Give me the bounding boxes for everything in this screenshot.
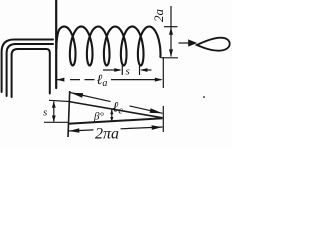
right tick [162, 106, 164, 132]
l_a dimension line dashes [57, 79, 95, 81]
svg-text:2a: 2a [151, 9, 166, 23]
l_c dimension line [70, 93, 163, 114]
triangle hypotenuse [69, 102, 163, 118]
ground plate [55, 0, 57, 88]
l_a right extension line [162, 57, 164, 88]
l_a dimension line right part [111, 79, 161, 81]
2pia arrowhead right [152, 125, 163, 130]
s bottom tick [44, 121, 69, 123]
2pia dimension line [69, 127, 163, 131]
helix coil [56, 27, 160, 66]
s arrow shaft [53, 102, 55, 122]
svg-text:2πa: 2πa [95, 126, 119, 143]
feed line middle [7, 44, 53, 96]
s coil arrowhead left [140, 68, 148, 72]
svg-text:β°: β° [93, 111, 104, 123]
triangle left edge [68, 91, 70, 137]
2a dimension line [170, 6, 172, 57]
beta arrowhead up [110, 109, 113, 114]
beta arrowhead down [110, 117, 113, 122]
s top tick [49, 100, 71, 101]
2a arrowhead down [169, 49, 173, 57]
l_a arrowhead right [155, 78, 163, 82]
2a arrowhead up [169, 27, 173, 35]
svg-text:s: s [126, 66, 130, 78]
2a bottom tick [161, 57, 178, 59]
svg-text:ℓc: ℓc [113, 101, 124, 117]
feed line inner [12, 49, 50, 97]
s coil left tick [121, 64, 123, 76]
scan speck [203, 96, 205, 98]
beta angle arrow shaft [111, 110, 113, 122]
triangle base [68, 118, 163, 124]
2pia arrowhead left [69, 128, 80, 133]
radiation arrow shaft [179, 42, 191, 43]
s coil right arrow shaft [142, 69, 152, 71]
radiation pattern teardrop [197, 38, 230, 51]
s tri arrowhead up [52, 101, 56, 108]
l_c arrowhead left [71, 93, 84, 98]
svg-text:ℓa: ℓa [97, 73, 108, 89]
s coil left arrow shaft [103, 69, 120, 71]
radiation arrowhead [188, 39, 197, 46]
feed line outer [2, 40, 53, 93]
s coil right tick [139, 64, 141, 76]
l_c arrowhead right [150, 108, 163, 113]
s coil arrowhead right [114, 68, 122, 72]
2a top tick [164, 26, 178, 28]
svg-text:s: s [43, 107, 47, 119]
l_a arrowhead left [56, 78, 64, 82]
s tri arrowhead down [52, 116, 56, 123]
